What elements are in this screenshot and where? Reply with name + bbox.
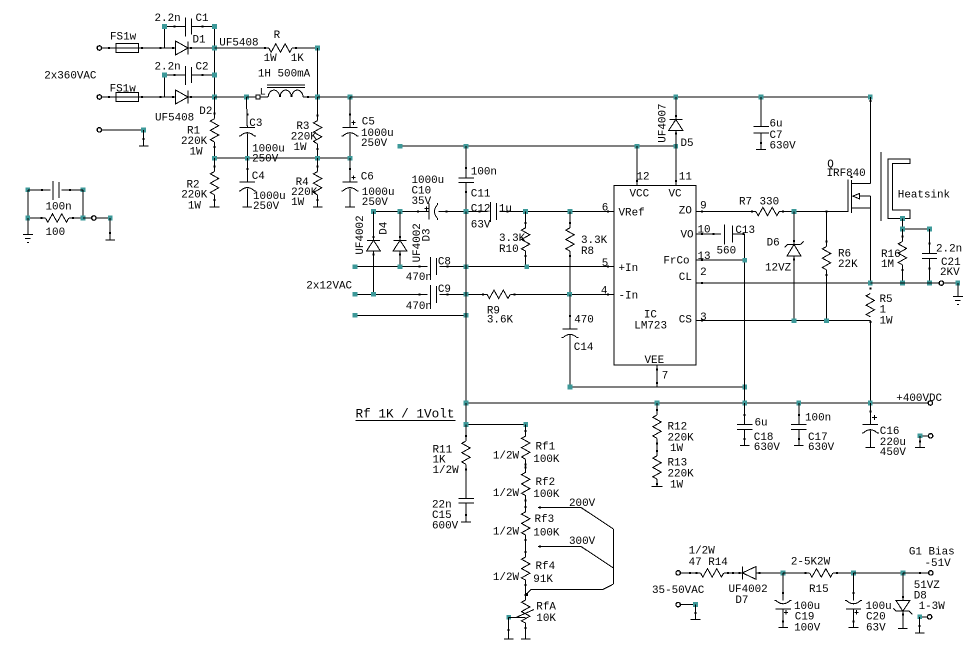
svg-text:R13: R13 <box>668 458 688 470</box>
svg-text:1W: 1W <box>264 53 278 65</box>
capacitor C20 100u 63V <box>853 573 855 601</box>
svg-text:FrCo: FrCo <box>663 255 689 267</box>
wire R14 to D7 <box>724 572 743 574</box>
ground terminal right <box>930 282 940 284</box>
svg-text:ZO: ZO <box>679 206 692 218</box>
svg-text:1/2W: 1/2W <box>433 465 460 477</box>
capacitor C11 100n <box>465 146 467 178</box>
capacitor C7 6u 630V <box>760 97 762 127</box>
svg-text:35-50VAC: 35-50VAC <box>652 585 705 597</box>
resistor R16 1M <box>901 229 903 242</box>
inductor L 1H 500mA <box>256 95 260 99</box>
svg-text:UF4007: UF4007 <box>657 103 669 142</box>
wire R to L output node <box>317 48 319 97</box>
svg-text:CS: CS <box>679 315 692 327</box>
resistor R13 220K 1W <box>656 438 658 456</box>
IC pin 11 stub <box>675 146 677 185</box>
capacitor C14 470 <box>569 294 571 329</box>
capacitor C3 1000u 250V <box>245 97 248 127</box>
RfA wiper ground stub <box>508 617 510 639</box>
svg-text:1W: 1W <box>670 480 684 492</box>
resistor Rf4 91K 1/2W <box>522 557 530 580</box>
svg-text:100V: 100V <box>794 622 821 634</box>
svg-text:UF4002: UF4002 <box>355 215 367 254</box>
output terminal stub near C16 <box>918 433 923 438</box>
svg-text:100K: 100K <box>533 528 560 540</box>
diode D7 UF4002 <box>742 566 756 579</box>
capacitor C9 470n <box>429 285 431 305</box>
svg-text:330: 330 <box>760 197 780 209</box>
wire +400VDC rail y403 <box>466 402 928 404</box>
wire C13 down x744.7 <box>744 234 746 387</box>
fuse FS2 row2 <box>116 92 139 101</box>
svg-text:63V: 63V <box>866 622 886 634</box>
svg-text:100n: 100n <box>805 413 831 425</box>
svg-text:D1: D1 <box>193 34 207 46</box>
svg-text:450V: 450V <box>880 447 907 459</box>
wire gate row <box>794 211 848 213</box>
svg-text:1u: 1u <box>499 204 512 216</box>
svg-text:D2: D2 <box>199 106 212 118</box>
pin 10 VO wire <box>696 233 721 235</box>
svg-text:1/2W: 1/2W <box>493 451 520 463</box>
svg-text:2.2n: 2.2n <box>936 244 962 256</box>
svg-text:1W: 1W <box>291 197 305 209</box>
svg-text:Rf 1K / 1Volt: Rf 1K / 1Volt <box>356 406 455 421</box>
capacitor C1 2.2n <box>163 27 165 48</box>
svg-text:2x360VAC: 2x360VAC <box>44 70 97 82</box>
wire row y424.4 <box>465 403 467 424</box>
svg-text:22K: 22K <box>838 259 858 271</box>
capacitor C18 6u 630V <box>744 403 746 425</box>
svg-text:1W: 1W <box>880 315 894 327</box>
capacitor C21 2.2n 2KV <box>929 229 931 254</box>
snubber ground <box>27 218 29 234</box>
capacitor C6 1000u 250V <box>349 158 351 182</box>
wire C10 to rail2 <box>439 211 467 213</box>
diode D8 51VZ 1-3W zener <box>902 573 904 601</box>
IC pin 7 stub <box>656 365 658 387</box>
svg-text:6u: 6u <box>755 417 768 429</box>
wire fuse2 to D2 <box>139 96 176 98</box>
svg-text:600V: 600V <box>432 521 459 533</box>
svg-text:35V: 35V <box>412 196 432 208</box>
pin 9 ZO wire <box>696 211 756 213</box>
svg-text:470: 470 <box>574 315 594 327</box>
svg-text:63V: 63V <box>471 220 491 232</box>
capacitor C8 470n <box>429 257 431 277</box>
svg-text:1W: 1W <box>188 201 202 213</box>
svg-text:UF5408: UF5408 <box>155 113 194 125</box>
svg-text:100n: 100n <box>46 201 72 213</box>
svg-text:1/2W: 1/2W <box>689 546 716 558</box>
svg-text:12: 12 <box>637 172 650 184</box>
wire: AC input row 2 <box>97 95 101 99</box>
resistor R 1K 1W <box>215 47 269 49</box>
svg-text:CL: CL <box>679 272 692 284</box>
svg-text:-In: -In <box>619 290 639 302</box>
snubber resistor 100 <box>27 190 29 218</box>
capacitor C10 1000u 35V <box>428 204 430 220</box>
svg-text:D4: D4 <box>379 222 391 235</box>
svg-text:1M: 1M <box>881 259 894 271</box>
wire +In row y266.7 <box>355 266 427 268</box>
resistor R14 47 1/2W <box>701 569 724 577</box>
pin 13 FrCo wire <box>696 259 745 261</box>
svg-text:2: 2 <box>700 267 707 279</box>
svg-text:Rf1: Rf1 <box>536 441 556 453</box>
svg-text:R10: R10 <box>499 244 519 256</box>
svg-text:470n: 470n <box>406 301 432 313</box>
svg-text:LM723: LM723 <box>634 321 667 333</box>
svg-text:3.6K: 3.6K <box>487 315 514 327</box>
svg-text:VO: VO <box>681 230 694 242</box>
diode D1 UF5408 <box>176 41 189 55</box>
diode D3 UF4002 <box>399 212 401 241</box>
RfA bottom ground stub <box>525 623 527 639</box>
pin 2 CL wire <box>696 282 870 284</box>
capacitor C4 1000u 250V <box>246 158 248 182</box>
svg-text:R15: R15 <box>809 584 829 596</box>
potentiometer RfA 10K <box>522 600 530 623</box>
svg-text:VCC: VCC <box>630 189 650 201</box>
resistor R8 3.3K <box>569 212 571 228</box>
resistor Rf3 100K 1/2W <box>522 512 530 535</box>
snubber capacitor 100n <box>25 187 30 192</box>
svg-text:47 R14: 47 R14 <box>689 557 728 569</box>
pin 3 CS wire <box>696 320 870 322</box>
svg-text:11: 11 <box>679 172 693 184</box>
svg-text:D5: D5 <box>681 138 694 150</box>
wire to R15 <box>783 572 810 574</box>
svg-text:2KV: 2KV <box>940 267 960 279</box>
bias -51V output stub <box>917 614 922 619</box>
svg-text:250V: 250V <box>361 138 388 150</box>
wire rail2 vertical <box>465 212 467 404</box>
G1 Bias output terminal <box>903 572 929 574</box>
svg-text:1H 500mA: 1H 500mA <box>258 69 311 81</box>
capacitor C17 100n 630V <box>798 403 800 425</box>
svg-text:4: 4 <box>601 286 608 298</box>
wire R5 to +400 rail <box>869 321 871 403</box>
wire Rf3-Rf4 with 300V tap <box>525 535 527 557</box>
D8 ground stub <box>902 611 904 628</box>
svg-text:C6: C6 <box>361 171 374 183</box>
svg-text:Heatsink: Heatsink <box>898 190 950 202</box>
+400VDC terminal <box>928 401 932 405</box>
svg-text:6u: 6u <box>770 118 783 130</box>
wire VRef row left <box>374 211 430 213</box>
svg-text:1-3W: 1-3W <box>919 601 946 613</box>
resistor Rf1 100K 1/2W <box>525 424 527 436</box>
svg-text:100n: 100n <box>471 167 497 179</box>
svg-text:560: 560 <box>717 246 737 258</box>
wire D1 to node <box>188 47 215 49</box>
svg-text:630V: 630V <box>754 442 781 454</box>
wire heatsink to R16/C21 <box>901 218 903 229</box>
svg-text:Rf4: Rf4 <box>536 561 556 573</box>
svg-text:FS1w: FS1w <box>110 31 137 43</box>
svg-text:VEE: VEE <box>645 355 665 367</box>
svg-text:D6: D6 <box>767 238 780 250</box>
diode D2 UF5408 <box>176 90 189 104</box>
wire D2 to node <box>188 96 215 98</box>
svg-text:91K: 91K <box>533 574 553 586</box>
wire center-tap row y315.3 <box>355 314 466 316</box>
snubber output terminal <box>83 217 92 219</box>
wire VCC row y146 <box>400 145 676 147</box>
svg-text:VRef: VRef <box>619 207 645 219</box>
wire D7 to node <box>756 572 783 574</box>
wire VEE row y387 <box>570 386 745 388</box>
svg-text:630V: 630V <box>770 141 797 153</box>
resistor R15 2-5K 2W <box>810 569 833 577</box>
capacitor C13 560 <box>724 224 726 244</box>
svg-text:R: R <box>274 30 281 42</box>
wire x744.7 to rail400 <box>744 387 746 403</box>
wire fuse1 to D1 <box>139 47 176 49</box>
resistor R11 1K 1/2W <box>465 424 467 441</box>
svg-text:D7: D7 <box>735 595 748 607</box>
svg-text:C12: C12 <box>471 204 491 216</box>
resistor R7 330 <box>756 207 779 215</box>
svg-text:C2: C2 <box>196 61 209 73</box>
svg-text:1K: 1K <box>291 53 305 65</box>
svg-text:100K: 100K <box>533 454 560 466</box>
svg-text:7: 7 <box>662 370 669 382</box>
third input terminal stub <box>97 128 101 132</box>
wire source row y283.1 <box>868 281 873 286</box>
svg-text:C11: C11 <box>471 188 491 200</box>
resistor R3 220K 1W <box>317 97 319 121</box>
svg-text:1/2W: 1/2W <box>493 527 520 539</box>
capacitor C5 1000u 250V <box>349 97 351 127</box>
svg-text:2-5K2W: 2-5K2W <box>791 556 831 568</box>
wire rail to C5 and right <box>318 96 350 98</box>
svg-text:250V: 250V <box>362 197 389 209</box>
heatsink <box>880 152 882 221</box>
svg-text:470n: 470n <box>406 272 432 284</box>
svg-text:630V: 630V <box>808 442 835 454</box>
resistor R1 220K 1W <box>214 97 216 119</box>
capacitor C15 22n 600V <box>465 464 467 498</box>
svg-text:Rf2: Rf2 <box>536 477 556 489</box>
svg-text:100: 100 <box>46 227 66 239</box>
svg-text:C13: C13 <box>735 225 755 237</box>
svg-text:1W: 1W <box>670 443 684 455</box>
svg-text:250V: 250V <box>253 201 280 213</box>
svg-text:C5: C5 <box>362 116 375 128</box>
diode D5 UF4007 <box>675 97 677 120</box>
IC pin 12 stub <box>636 146 638 185</box>
svg-text:1/2W: 1/2W <box>493 488 520 500</box>
svg-text:250V: 250V <box>252 154 279 166</box>
resistor R2 220K 1W <box>214 158 216 171</box>
fuse FS1 row1 <box>116 43 139 52</box>
wire R15 to C20 node <box>833 572 854 574</box>
svg-text:10K: 10K <box>536 613 556 625</box>
svg-text:2x12VAC: 2x12VAC <box>306 280 352 292</box>
resistor R6 22K <box>826 212 828 247</box>
svg-text:C14: C14 <box>574 342 594 354</box>
svg-text:1W: 1W <box>294 142 308 154</box>
svg-text:+In: +In <box>619 263 639 275</box>
wire -In row y294.3 <box>355 293 427 295</box>
diode D6 12VZ zener <box>793 212 795 245</box>
svg-text:12VZ: 12VZ <box>765 262 792 274</box>
wire: AC input row 1 <box>97 46 101 50</box>
resistor Rf2 100K 1/2W <box>525 459 527 472</box>
svg-text:-51V: -51V <box>925 558 952 570</box>
resistor R9 3.6K <box>487 290 510 298</box>
svg-text:C3: C3 <box>249 118 262 130</box>
wire C20 to D8 node <box>854 572 903 574</box>
junction row E wires <box>215 157 248 159</box>
svg-text:RfA: RfA <box>536 601 556 613</box>
svg-text:3: 3 <box>700 312 707 324</box>
svg-text:C4: C4 <box>252 171 265 183</box>
resistor R12 220K 1W <box>656 403 658 415</box>
svg-text:1/2W: 1/2W <box>493 572 520 584</box>
capacitor C19 100u 100V <box>782 573 784 601</box>
svg-text:100K: 100K <box>533 489 560 501</box>
svg-text:VC: VC <box>669 189 683 201</box>
wire Rf2-Rf3 with 200V tap <box>525 496 527 512</box>
resistor R5 1 1W <box>866 294 874 317</box>
wire node rail1 top <box>214 27 216 97</box>
svg-text:6: 6 <box>602 203 609 215</box>
resistor R4 220K 1W <box>317 158 319 171</box>
svg-text:G1 Bias: G1 Bias <box>909 546 955 558</box>
svg-text:10: 10 <box>698 225 711 237</box>
capacitor C2 2.2n <box>163 75 165 97</box>
bias second input stub <box>676 602 680 606</box>
svg-text:IRF840: IRF840 <box>827 168 866 180</box>
capacitor C16 220u 450V <box>869 403 871 424</box>
resistor R10 3.3K <box>525 212 527 228</box>
svg-text:R7: R7 <box>739 197 752 209</box>
svg-text:5: 5 <box>602 258 609 270</box>
svg-text:2.2n: 2.2n <box>155 61 181 73</box>
svg-text:2.2n: 2.2n <box>155 13 181 25</box>
tap select bus <box>612 529 614 584</box>
wire main rail row D <box>215 96 247 98</box>
svg-text:C1: C1 <box>196 13 210 25</box>
wire VRef row to pin6 <box>526 211 614 213</box>
diode D4 UF4002 <box>373 212 375 241</box>
pin end dots near IC <box>607 211 609 213</box>
svg-text:FS1w: FS1w <box>110 83 137 95</box>
svg-text:+400VDC: +400VDC <box>896 393 942 405</box>
svg-text:1W: 1W <box>190 147 204 159</box>
capacitor C12 1u 63V <box>466 211 488 213</box>
bias input terminal 35-50VAC <box>676 571 680 575</box>
IC U1 LM723 box <box>614 185 696 365</box>
svg-text:D3: D3 <box>422 228 434 241</box>
svg-text:13: 13 <box>698 251 711 263</box>
svg-text:Rf3: Rf3 <box>535 514 555 526</box>
wire Rf4 to RfA <box>525 580 527 600</box>
svg-text:R8: R8 <box>581 246 594 258</box>
